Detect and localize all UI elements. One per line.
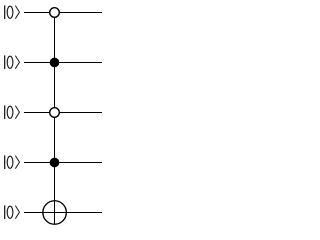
qubit label |0> q1 [4,55,19,69]
filled control q3 [50,158,60,168]
wire q1 [24,62,102,64]
qubit label |0> q0 [4,5,19,19]
CNOT target circle q4 [43,201,67,225]
wire q3 [24,162,102,164]
filled control q1 [50,58,60,68]
wire q2 [24,112,102,114]
open control (anti-control) q2 [50,108,60,118]
wire q0 [24,12,102,14]
qubit label |0> q4 [4,205,19,219]
qubit label |0> q2 [4,105,19,119]
vertical control line [54,13,56,225]
wire q4 [24,212,102,214]
open control (anti-control) q0 [50,8,60,18]
qubit label |0> q3 [4,155,19,169]
